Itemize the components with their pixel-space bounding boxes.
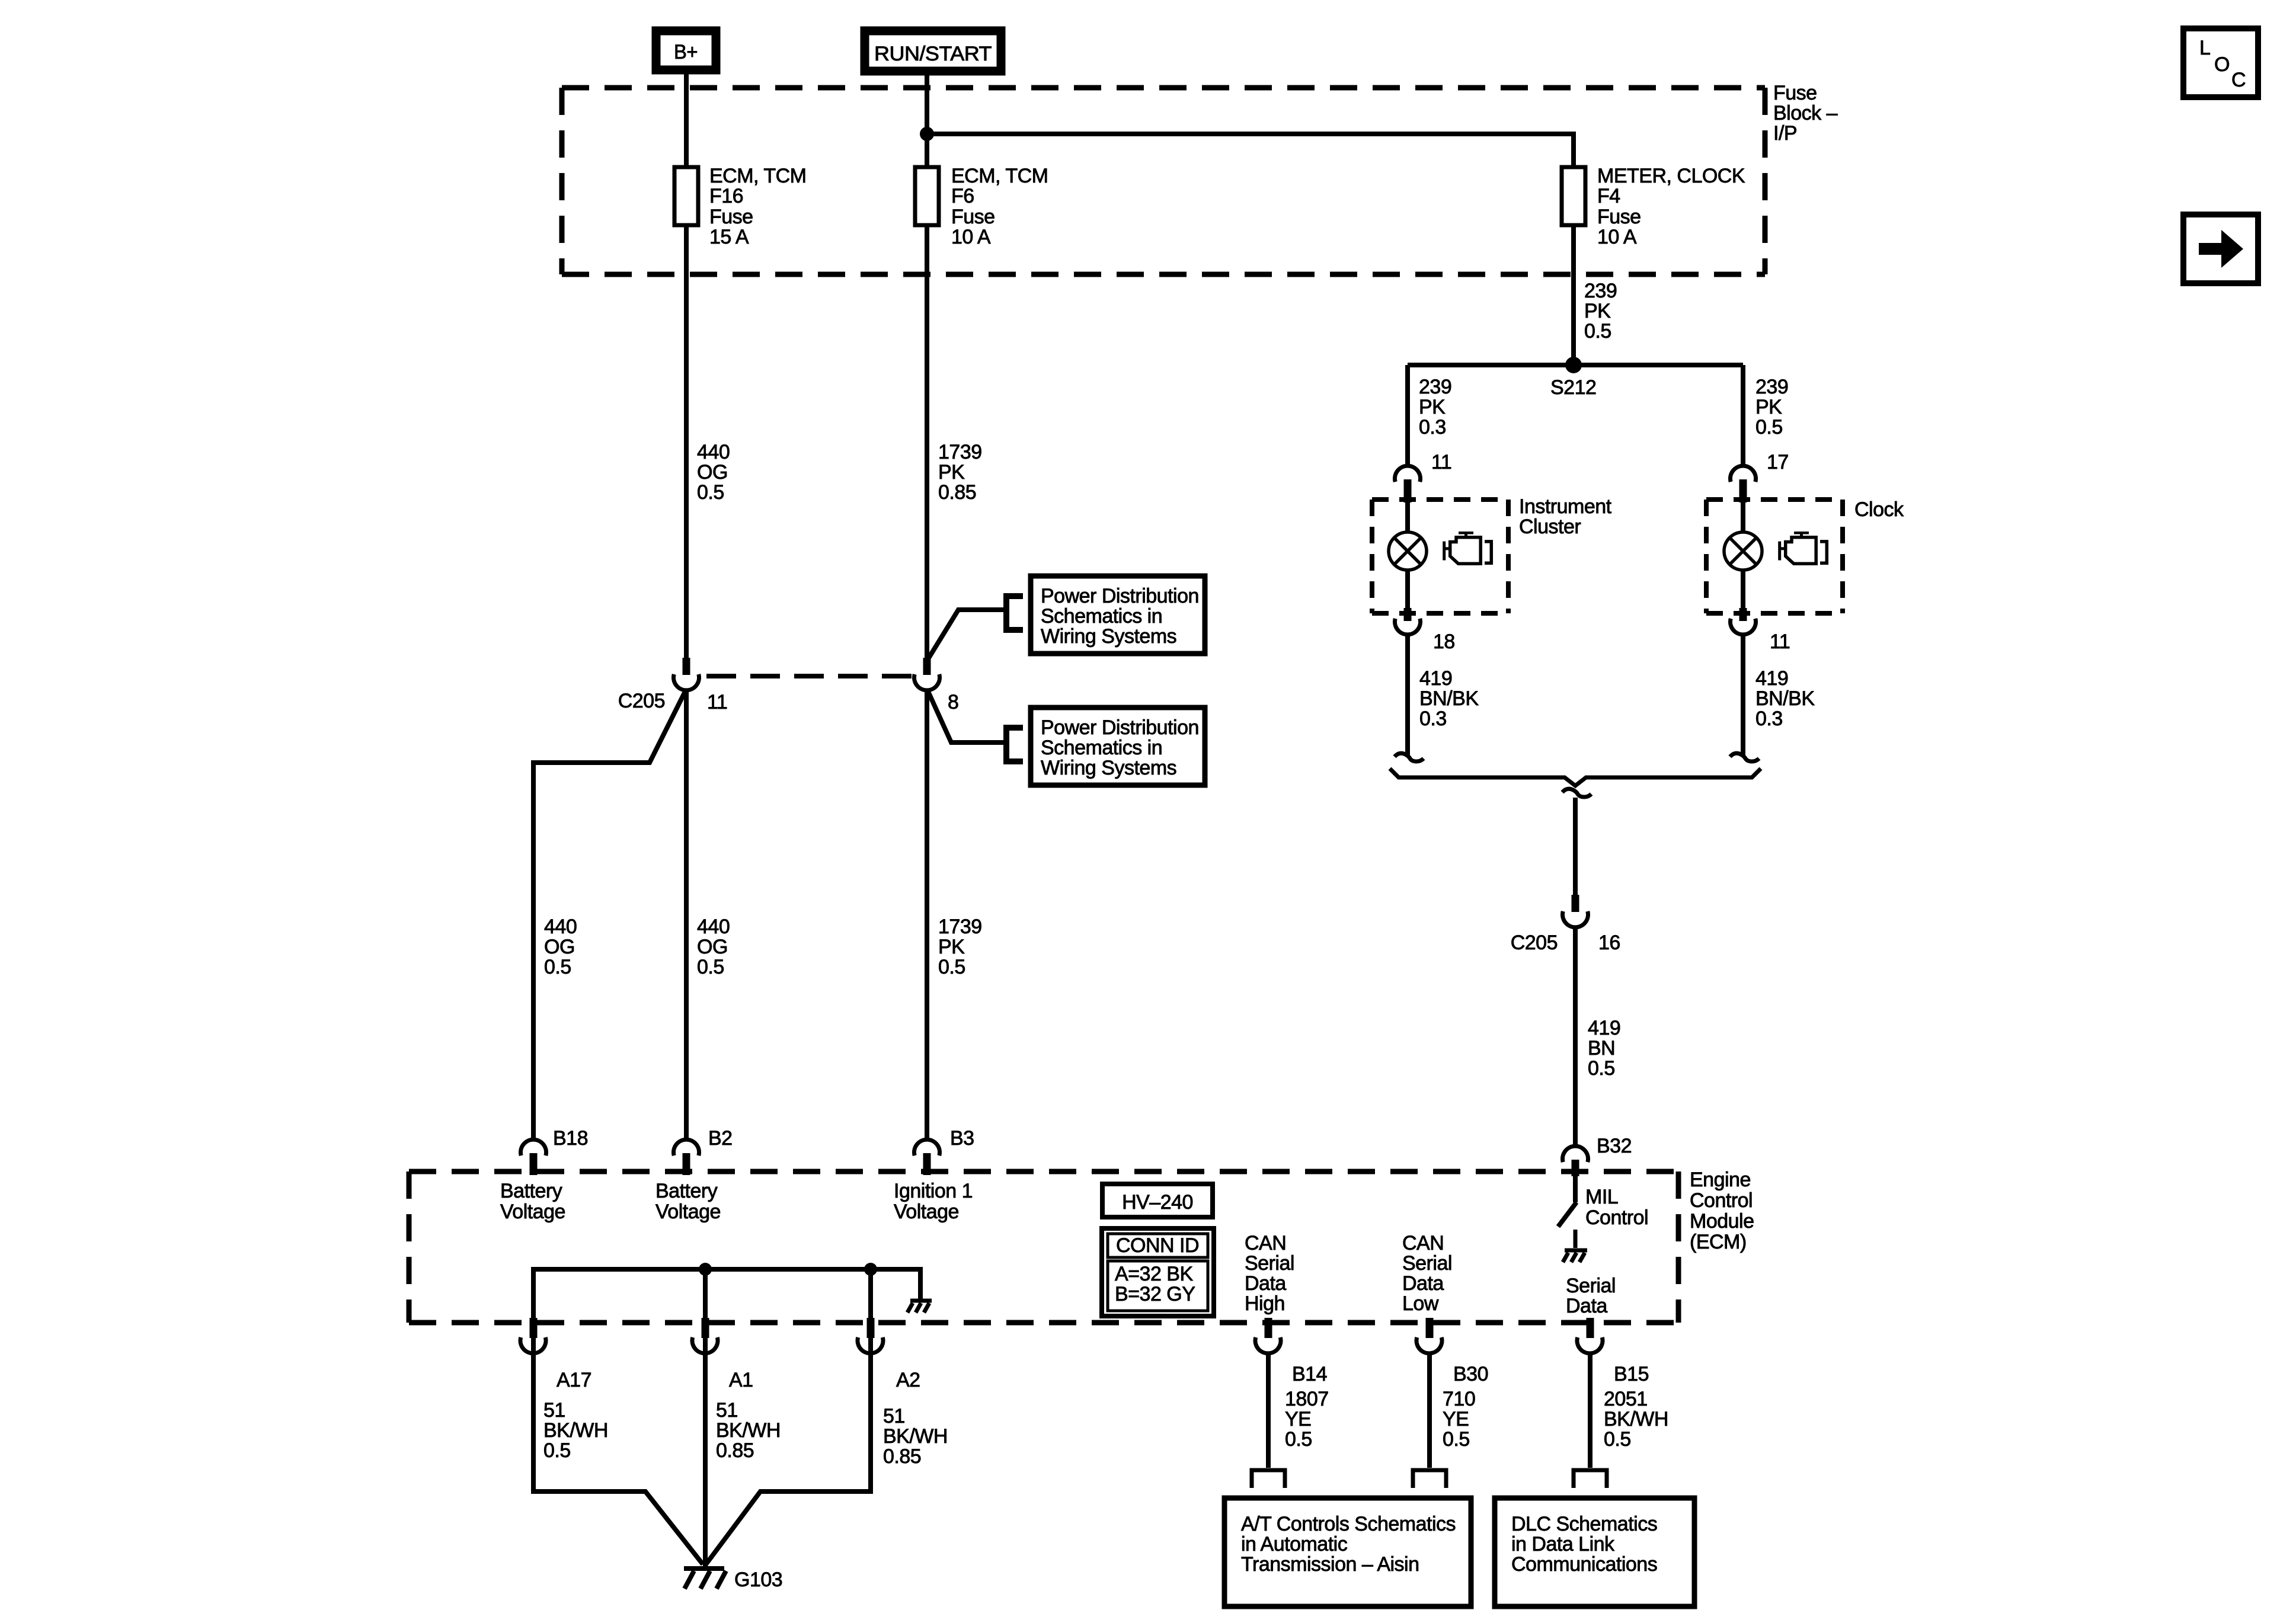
off-page stub B30	[1413, 1470, 1446, 1488]
svg-text:0.3: 0.3	[1419, 708, 1447, 730]
svg-text:Cluster: Cluster	[1519, 516, 1581, 538]
wire B14 down	[1266, 1353, 1271, 1468]
connector instrument cluster pin 11	[1395, 451, 1452, 502]
lamp clock	[1724, 532, 1762, 570]
wire F6 down to C205 pin 8	[925, 225, 929, 659]
wire into cluster lamp	[1405, 501, 1410, 533]
svg-text:440: 440	[544, 916, 577, 938]
wire label 1807 YE 0.5	[1285, 1388, 1329, 1451]
label CAN Serial Data Low	[1402, 1232, 1452, 1315]
svg-text:A2: A2	[896, 1369, 920, 1391]
wire S212 left branch down	[1405, 365, 1410, 467]
svg-text:419: 419	[1588, 1017, 1620, 1039]
junction dot on RUN/START feed	[920, 127, 934, 141]
svg-text:51: 51	[883, 1405, 905, 1427]
svg-text:Schematics in: Schematics in	[1041, 737, 1162, 759]
svg-text:(ECM): (ECM)	[1690, 1231, 1747, 1253]
svg-text:Data: Data	[1245, 1272, 1286, 1295]
svg-text:DLC Schematics: DLC Schematics	[1511, 1513, 1657, 1535]
wire A1 stub	[703, 1269, 708, 1355]
svg-text:0.5: 0.5	[1588, 1057, 1615, 1080]
svg-text:0.85: 0.85	[883, 1445, 921, 1468]
connector ECM pin B15	[1577, 1318, 1649, 1385]
connector ECM pin B14	[1255, 1318, 1327, 1385]
connector ECM pin B18	[521, 1127, 589, 1175]
wire junction to F4 (horizontal then down)	[927, 134, 1574, 167]
wire label 239 PK 0.5 (right)	[1755, 376, 1788, 438]
svg-text:Instrument: Instrument	[1519, 495, 1612, 518]
wire F4 down to splice S212	[1571, 225, 1576, 365]
wire C205-8 down to B3	[925, 690, 929, 1140]
wire C205-11 branch to B18 column	[533, 690, 686, 1140]
reference box Power Distribution 1	[1031, 576, 1205, 654]
connector clock pin 17	[1731, 451, 1789, 502]
connector clock pin 11	[1731, 608, 1790, 653]
svg-text:PK: PK	[938, 461, 965, 484]
svg-text:Low: Low	[1402, 1292, 1439, 1315]
svg-text:CAN: CAN	[1245, 1232, 1286, 1254]
fuse block I/P dashed box	[562, 88, 1765, 274]
fuse F16	[674, 165, 806, 248]
wire label 419 BN/BK 0.3 (right)	[1755, 667, 1815, 730]
wire cluster pin 18 down	[1405, 635, 1410, 757]
wire A17 to G103	[533, 1353, 703, 1564]
svg-text:RUN/START: RUN/START	[874, 43, 992, 65]
svg-text:710: 710	[1443, 1388, 1475, 1410]
svg-text:BK/WH: BK/WH	[883, 1425, 948, 1448]
svg-text:BN/BK: BN/BK	[1755, 687, 1815, 710]
reference bracket 2	[1006, 728, 1023, 761]
svg-text:10 A: 10 A	[951, 226, 991, 248]
svg-text:16: 16	[1598, 932, 1620, 954]
svg-text:Transmission – Aisin: Transmission – Aisin	[1241, 1553, 1419, 1576]
svg-text:B30: B30	[1453, 1363, 1488, 1385]
svg-text:Data: Data	[1402, 1272, 1444, 1295]
wire into clock lamp	[1741, 501, 1745, 533]
svg-text:PK: PK	[1755, 396, 1782, 418]
fuse F6	[915, 165, 1048, 248]
svg-text:Serial: Serial	[1402, 1252, 1452, 1275]
wire merge down to C205-16	[1573, 798, 1578, 896]
wire C205-8 to power distribution 1 (diagonal up)	[928, 610, 1006, 659]
svg-text:51: 51	[716, 1399, 738, 1422]
svg-text:419: 419	[1419, 667, 1452, 690]
connector ECM pin A1	[692, 1318, 753, 1391]
wire A2 stub	[868, 1269, 873, 1355]
wire label 51 BK/WH 0.85 (A1)	[716, 1399, 781, 1462]
svg-text:High: High	[1245, 1292, 1285, 1315]
svg-text:11: 11	[1431, 451, 1451, 473]
connector ECM pin B3	[914, 1127, 974, 1175]
splice S212	[1408, 357, 1743, 399]
svg-text:0.5: 0.5	[938, 956, 965, 978]
connector ECM pin A2	[858, 1318, 920, 1391]
svg-text:BK/WH: BK/WH	[716, 1419, 781, 1442]
wire A1 to G103	[703, 1353, 708, 1569]
svg-text:Voltage: Voltage	[500, 1201, 565, 1223]
label CAN Serial Data High	[1245, 1232, 1294, 1315]
svg-text:0.3: 0.3	[1419, 416, 1446, 438]
label Ignition 1 Voltage (B3)	[894, 1180, 973, 1223]
svg-text:F4: F4	[1597, 185, 1620, 207]
svg-text:ECM, TCM: ECM, TCM	[709, 165, 806, 187]
merge brace	[1390, 769, 1761, 786]
svg-text:B3: B3	[950, 1127, 974, 1150]
reference box Power Distribution 2	[1031, 708, 1205, 785]
svg-text:1807: 1807	[1285, 1388, 1329, 1410]
label Battery Voltage (B2)	[655, 1180, 721, 1223]
svg-text:0.5: 0.5	[1584, 320, 1611, 343]
wire label 710 YE 0.5	[1443, 1388, 1475, 1451]
svg-text:Serial: Serial	[1245, 1252, 1294, 1275]
svg-text:Module: Module	[1690, 1210, 1754, 1233]
svg-text:B+: B+	[674, 41, 698, 63]
svg-text:Power Distribution: Power Distribution	[1041, 585, 1199, 607]
terminal RUN/START	[865, 31, 1001, 71]
svg-text:8: 8	[948, 691, 958, 713]
svg-text:A=32 BK: A=32 BK	[1115, 1263, 1193, 1285]
svg-text:BN/BK: BN/BK	[1419, 687, 1479, 710]
wire label 239 PK 0.3	[1419, 376, 1451, 438]
ground G103	[684, 1569, 726, 1589]
svg-text:0.5: 0.5	[697, 481, 724, 504]
svg-text:Fuse: Fuse	[1773, 82, 1817, 104]
reference box DLC Schematics	[1495, 1498, 1694, 1606]
svg-text:B18: B18	[553, 1127, 588, 1150]
svg-text:Voltage: Voltage	[655, 1201, 721, 1223]
wire C205-8 to power distribution 2 (diagonal down)	[928, 692, 1006, 742]
svg-text:B=32 GY: B=32 GY	[1115, 1283, 1195, 1305]
wire C205-16 down to B32	[1573, 927, 1578, 1146]
svg-text:HV–240: HV–240	[1122, 1191, 1193, 1214]
svg-text:BK/WH: BK/WH	[543, 1419, 608, 1442]
svg-text:PK: PK	[1584, 300, 1611, 322]
svg-text:A1: A1	[729, 1369, 753, 1391]
svg-text:I/P: I/P	[1773, 122, 1797, 145]
MIL control switch	[1558, 1174, 1648, 1229]
svg-text:Fuse: Fuse	[951, 206, 995, 228]
svg-text:B2: B2	[708, 1127, 733, 1150]
svg-text:CONN ID: CONN ID	[1116, 1234, 1199, 1257]
off-page stub B15	[1574, 1470, 1607, 1488]
MIL engine icon (clock)	[1780, 533, 1827, 564]
svg-text:S212: S212	[1550, 376, 1596, 399]
terminal B+	[656, 31, 716, 70]
svg-text:Battery: Battery	[500, 1180, 562, 1202]
svg-text:Wiring Systems: Wiring Systems	[1041, 625, 1176, 648]
wire label 419 BN/BK 0.3 (left)	[1419, 667, 1479, 730]
svg-text:YE: YE	[1443, 1408, 1469, 1430]
label Battery Voltage (B18)	[500, 1180, 565, 1223]
wire lamp to cluster pin 18	[1405, 570, 1410, 612]
svg-text:440: 440	[697, 916, 730, 938]
label Fuse Block - I/P	[1773, 82, 1838, 145]
chassis ground (MIL)	[1563, 1230, 1587, 1262]
svg-text:OG: OG	[697, 461, 728, 484]
svg-text:METER, CLOCK: METER, CLOCK	[1597, 165, 1745, 187]
clock dashed box	[1706, 500, 1843, 613]
svg-text:OG: OG	[544, 936, 575, 958]
svg-text:0.5: 0.5	[1604, 1428, 1631, 1451]
svg-text:0.5: 0.5	[697, 956, 724, 978]
wire C205-11 down to B2	[684, 690, 689, 1140]
svg-text:YE: YE	[1285, 1408, 1311, 1430]
wire label 239 PK 0.5 (below F4)	[1584, 280, 1617, 343]
MIL engine icon (cluster)	[1444, 533, 1492, 564]
svg-text:ECM, TCM: ECM, TCM	[951, 165, 1048, 187]
svg-text:PK: PK	[1419, 396, 1446, 418]
wire B30 down	[1427, 1353, 1432, 1468]
svg-text:2051: 2051	[1604, 1388, 1648, 1410]
svg-text:in Data Link: in Data Link	[1511, 1533, 1615, 1555]
connector C205 pin 16	[1511, 895, 1620, 954]
svg-text:Voltage: Voltage	[894, 1201, 959, 1223]
connector ECM pin B32	[1563, 1135, 1632, 1176]
svg-text:0.5: 0.5	[1285, 1428, 1312, 1451]
svg-text:Serial: Serial	[1566, 1275, 1616, 1297]
svg-text:Block –: Block –	[1773, 102, 1838, 124]
svg-text:Schematics in: Schematics in	[1041, 605, 1162, 628]
svg-text:0.85: 0.85	[716, 1439, 754, 1462]
svg-text:419: 419	[1755, 667, 1788, 690]
svg-text:OG: OG	[697, 936, 728, 958]
svg-text:0.3: 0.3	[1755, 708, 1783, 730]
svg-text:B15: B15	[1614, 1363, 1649, 1385]
label Engine Control Module (ECM)	[1690, 1169, 1754, 1253]
wire label 1739 PK 0.5 (B3 column)	[938, 916, 982, 978]
svg-text:15 A: 15 A	[709, 226, 749, 248]
connector instrument cluster pin 18	[1395, 608, 1455, 653]
svg-text:11: 11	[707, 691, 727, 713]
svg-text:18: 18	[1433, 630, 1455, 653]
svg-text:G103: G103	[734, 1569, 782, 1591]
svg-text:0.5: 0.5	[1755, 416, 1783, 438]
wire label 1739 PK 0.85	[938, 441, 982, 504]
svg-text:Clock: Clock	[1854, 498, 1904, 521]
wire label 51 BK/WH 0.85 (A2)	[883, 1405, 948, 1468]
svg-text:A/T Controls Schematics: A/T Controls Schematics	[1241, 1513, 1456, 1535]
svg-text:239: 239	[1419, 376, 1451, 398]
svg-text:Battery: Battery	[655, 1180, 718, 1202]
svg-text:Fuse: Fuse	[1597, 206, 1641, 228]
svg-text:Ignition 1: Ignition 1	[894, 1180, 973, 1202]
svg-text:0.85: 0.85	[938, 481, 976, 504]
svg-text:239: 239	[1584, 280, 1617, 302]
chassis ground (ECM internal)	[907, 1301, 932, 1313]
svg-text:Control: Control	[1585, 1206, 1648, 1229]
svg-text:O: O	[2214, 53, 2230, 76]
svg-text:0.5: 0.5	[544, 956, 571, 978]
reference bracket 1	[1006, 596, 1023, 630]
svg-text:440: 440	[697, 441, 730, 463]
svg-text:Engine: Engine	[1690, 1169, 1751, 1191]
label Serial Data	[1566, 1275, 1616, 1317]
svg-text:B32: B32	[1597, 1135, 1632, 1157]
junction dot A1	[699, 1263, 712, 1276]
svg-text:BK/WH: BK/WH	[1604, 1408, 1668, 1430]
wire lamp to clock pin 11	[1741, 570, 1745, 612]
wire F16 down to C205 pin 11	[684, 225, 689, 659]
svg-text:Data: Data	[1566, 1295, 1607, 1317]
connector C205 pin 11	[618, 658, 728, 713]
reference tag HV-240	[1102, 1184, 1213, 1217]
svg-text:CAN: CAN	[1402, 1232, 1444, 1254]
connector ECM pin B2	[674, 1127, 733, 1175]
connector ECM pin B30	[1416, 1318, 1488, 1385]
svg-text:MIL: MIL	[1585, 1186, 1618, 1208]
off-page stub B14	[1252, 1470, 1285, 1488]
svg-text:0.5: 0.5	[543, 1439, 571, 1462]
wire S212 right branch down	[1741, 365, 1745, 467]
svg-text:Fuse: Fuse	[709, 206, 753, 228]
wire label 440 OG 0.5 (B18 column)	[544, 916, 577, 978]
svg-text:F6: F6	[951, 185, 974, 207]
svg-text:in Automatic: in Automatic	[1241, 1533, 1348, 1555]
svg-text:BN: BN	[1588, 1037, 1615, 1060]
page locator LOC box	[2183, 28, 2258, 97]
wire label 440 OG 0.5 (upper)	[697, 441, 730, 504]
svg-text:C205: C205	[1511, 932, 1558, 954]
svg-text:B14: B14	[1292, 1363, 1327, 1385]
svg-text:C: C	[2231, 69, 2246, 91]
wire label 440 OG 0.5 (B2 column)	[697, 916, 730, 978]
svg-text:A17: A17	[557, 1369, 591, 1391]
lamp instrument cluster	[1389, 532, 1427, 570]
fuse F4	[1562, 165, 1745, 248]
wire B+ down to fuse F16	[684, 70, 689, 167]
instrument cluster dashed box	[1372, 500, 1508, 613]
svg-text:1739: 1739	[938, 916, 982, 938]
wire B15 down	[1588, 1353, 1593, 1468]
junction dot A2	[864, 1263, 877, 1276]
merge hook	[1562, 789, 1591, 797]
svg-text:11: 11	[1770, 630, 1790, 653]
svg-text:10 A: 10 A	[1597, 226, 1637, 248]
wire label 419 BN 0.5	[1588, 1017, 1620, 1080]
svg-text:Wiring Systems: Wiring Systems	[1041, 757, 1176, 779]
wire A2 to G103	[706, 1353, 871, 1564]
page arrow box	[2183, 215, 2258, 283]
label Instrument Cluster	[1519, 495, 1612, 538]
svg-text:C205: C205	[618, 690, 665, 712]
connector ECM pin A17	[520, 1318, 591, 1391]
svg-text:1739: 1739	[938, 441, 982, 463]
svg-text:239: 239	[1755, 376, 1788, 398]
wire end hook (right)	[1730, 753, 1759, 761]
svg-text:F16: F16	[709, 185, 743, 207]
wire label 2051 BK/WH 0.5	[1604, 1388, 1668, 1451]
svg-text:Communications: Communications	[1511, 1553, 1657, 1576]
svg-text:L: L	[2199, 37, 2210, 59]
svg-text:51: 51	[543, 1399, 565, 1422]
connector C205 pin 8	[914, 658, 959, 713]
svg-text:PK: PK	[938, 936, 965, 958]
svg-text:Power Distribution: Power Distribution	[1041, 716, 1199, 739]
dashed link between C205 pins	[706, 674, 913, 678]
ECM dashed box	[409, 1172, 1678, 1323]
CONN ID table	[1102, 1228, 1214, 1316]
ground bus inside ECM	[533, 1269, 920, 1353]
wire RUN/START down to fuse F6	[925, 71, 929, 167]
wire clock pin 11 down	[1741, 635, 1745, 757]
svg-text:Control: Control	[1690, 1189, 1753, 1212]
wire end hook (left)	[1395, 753, 1424, 761]
svg-text:0.5: 0.5	[1443, 1428, 1470, 1451]
wire label 51 BK/WH 0.5 (A17)	[543, 1399, 608, 1462]
reference box A/T Controls	[1224, 1498, 1471, 1606]
svg-text:17: 17	[1767, 451, 1789, 473]
